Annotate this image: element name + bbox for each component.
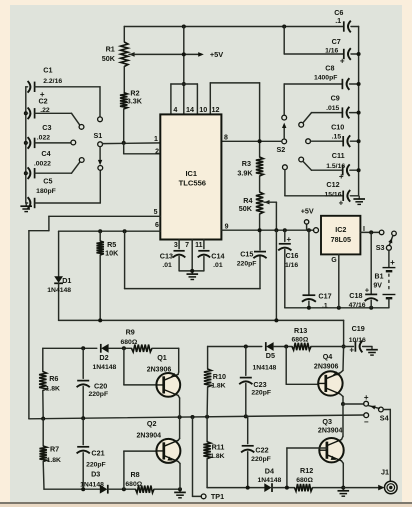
svg-text:R13: R13 bbox=[294, 326, 307, 335]
svg-text:Q4: Q4 bbox=[323, 352, 333, 361]
svg-text:50K: 50K bbox=[102, 54, 116, 63]
svg-text:6: 6 bbox=[155, 222, 159, 229]
svg-text:10: 10 bbox=[199, 105, 207, 114]
svg-text:IC1: IC1 bbox=[185, 169, 197, 178]
svg-text:D2: D2 bbox=[99, 353, 108, 362]
svg-text:.0022: .0022 bbox=[34, 161, 51, 168]
svg-text:680Ω: 680Ω bbox=[296, 477, 313, 484]
svg-text:680Ω: 680Ω bbox=[292, 337, 309, 344]
svg-text:+: + bbox=[364, 393, 369, 402]
svg-text:C12: C12 bbox=[326, 180, 339, 189]
svg-text:220pF: 220pF bbox=[86, 461, 106, 468]
svg-text:R9: R9 bbox=[126, 328, 135, 337]
svg-text:S4: S4 bbox=[380, 414, 389, 423]
svg-text:D4: D4 bbox=[265, 466, 274, 475]
svg-text:12: 12 bbox=[212, 105, 220, 114]
svg-text:R10: R10 bbox=[213, 372, 226, 381]
svg-text:10/16: 10/16 bbox=[349, 337, 366, 344]
svg-text:8: 8 bbox=[224, 135, 228, 142]
svg-text:.22: .22 bbox=[40, 107, 50, 114]
svg-text:2N3906: 2N3906 bbox=[147, 367, 172, 374]
svg-text:+: + bbox=[340, 57, 345, 66]
svg-text:S1: S1 bbox=[94, 131, 103, 140]
svg-text:180pF: 180pF bbox=[36, 188, 56, 195]
svg-text:C11: C11 bbox=[332, 151, 345, 160]
svg-text:2.2/16: 2.2/16 bbox=[43, 78, 62, 85]
svg-text:S3: S3 bbox=[376, 243, 385, 252]
svg-text:+: + bbox=[390, 258, 395, 267]
svg-text:7: 7 bbox=[185, 242, 189, 249]
svg-text:14: 14 bbox=[186, 105, 194, 114]
svg-text:C17: C17 bbox=[318, 291, 331, 300]
svg-text:C22: C22 bbox=[255, 445, 268, 454]
svg-text:+: + bbox=[286, 235, 291, 244]
svg-text:220pF: 220pF bbox=[237, 261, 257, 268]
svg-text:.015: .015 bbox=[326, 105, 339, 112]
svg-text:220pF: 220pF bbox=[251, 456, 271, 463]
svg-text:C9: C9 bbox=[331, 93, 340, 102]
svg-text:C21: C21 bbox=[91, 448, 104, 457]
svg-text:50K: 50K bbox=[239, 204, 253, 213]
svg-text:220pF: 220pF bbox=[251, 390, 271, 397]
svg-text:5: 5 bbox=[154, 209, 158, 216]
svg-text:C18: C18 bbox=[349, 291, 362, 300]
svg-text:.1: .1 bbox=[322, 303, 328, 310]
svg-text:Q3: Q3 bbox=[322, 417, 332, 426]
svg-text:J1: J1 bbox=[381, 467, 389, 476]
svg-text:.022: .022 bbox=[37, 134, 50, 141]
svg-text:1N4148: 1N4148 bbox=[80, 482, 104, 489]
svg-text:.01: .01 bbox=[162, 262, 172, 269]
svg-text:+: + bbox=[349, 346, 354, 355]
svg-text:1400pF: 1400pF bbox=[314, 74, 337, 81]
svg-text:+5V: +5V bbox=[210, 50, 223, 59]
svg-text:2N3906: 2N3906 bbox=[314, 363, 339, 370]
svg-text:3.3K: 3.3K bbox=[127, 96, 143, 105]
svg-text:.01: .01 bbox=[213, 262, 223, 269]
svg-text:9V: 9V bbox=[373, 282, 382, 289]
svg-text:D1: D1 bbox=[62, 276, 71, 285]
svg-text:C5: C5 bbox=[43, 176, 52, 185]
svg-text:3.9K: 3.9K bbox=[237, 169, 253, 178]
svg-text:11: 11 bbox=[195, 242, 203, 249]
svg-text:D3: D3 bbox=[91, 470, 100, 479]
svg-text:+: + bbox=[339, 172, 344, 181]
svg-text:C3: C3 bbox=[42, 123, 51, 132]
svg-text:10K: 10K bbox=[105, 248, 119, 257]
svg-text:1.5/16: 1.5/16 bbox=[326, 163, 345, 170]
svg-text:R8: R8 bbox=[130, 470, 139, 479]
svg-text:S2: S2 bbox=[277, 145, 286, 154]
svg-text:1: 1 bbox=[154, 136, 158, 143]
svg-text:C23: C23 bbox=[253, 380, 266, 389]
svg-text:R7: R7 bbox=[50, 445, 59, 454]
svg-text:78L05: 78L05 bbox=[331, 235, 351, 244]
svg-text:C2: C2 bbox=[38, 96, 47, 105]
svg-text:1N4148: 1N4148 bbox=[47, 287, 71, 294]
svg-text:2N3904: 2N3904 bbox=[318, 428, 343, 435]
svg-text:680Ω: 680Ω bbox=[121, 339, 138, 346]
svg-text:2N3904: 2N3904 bbox=[137, 433, 162, 440]
svg-text:R6: R6 bbox=[49, 374, 58, 383]
svg-text:1.8K: 1.8K bbox=[47, 457, 61, 464]
svg-text:C14: C14 bbox=[211, 251, 224, 260]
svg-text:1/16: 1/16 bbox=[325, 47, 338, 54]
svg-text:+5V: +5V bbox=[301, 206, 314, 215]
svg-text:R1: R1 bbox=[106, 44, 115, 53]
svg-text:1.8K: 1.8K bbox=[211, 383, 225, 390]
svg-text:TP1: TP1 bbox=[211, 492, 224, 501]
svg-text:R11: R11 bbox=[212, 443, 225, 452]
svg-text:C13: C13 bbox=[160, 251, 173, 260]
svg-text:1.8K: 1.8K bbox=[46, 386, 60, 393]
svg-text:4: 4 bbox=[173, 105, 177, 114]
svg-text:1N4148: 1N4148 bbox=[252, 365, 276, 372]
svg-text:1/16: 1/16 bbox=[285, 262, 298, 269]
svg-text:220pF: 220pF bbox=[88, 391, 108, 398]
svg-text:.15: .15 bbox=[332, 134, 342, 141]
svg-text:C7: C7 bbox=[332, 37, 341, 46]
svg-text:C16: C16 bbox=[286, 253, 299, 260]
svg-text:1.8K: 1.8K bbox=[210, 453, 224, 460]
svg-text:IC2: IC2 bbox=[335, 225, 346, 234]
svg-text:C20: C20 bbox=[94, 381, 107, 390]
svg-text:Q1: Q1 bbox=[157, 353, 167, 362]
svg-text:3: 3 bbox=[174, 242, 178, 249]
svg-text:−: − bbox=[364, 417, 369, 426]
svg-text:D5: D5 bbox=[266, 351, 275, 360]
svg-text:47/16: 47/16 bbox=[349, 302, 366, 309]
svg-text:+: + bbox=[339, 198, 344, 207]
svg-text:680Ω: 680Ω bbox=[125, 481, 142, 488]
svg-text:C10: C10 bbox=[331, 123, 344, 132]
svg-text:.1: .1 bbox=[335, 16, 341, 25]
svg-text:C8: C8 bbox=[325, 64, 334, 73]
svg-text:C19: C19 bbox=[352, 324, 365, 333]
svg-text:1N4148: 1N4148 bbox=[257, 477, 281, 484]
svg-text:Q2: Q2 bbox=[147, 419, 157, 428]
svg-text:R3: R3 bbox=[242, 159, 251, 168]
svg-text:C4: C4 bbox=[41, 149, 50, 158]
svg-text:2: 2 bbox=[155, 149, 159, 156]
svg-text:R12: R12 bbox=[300, 466, 313, 475]
svg-text:B1: B1 bbox=[375, 273, 384, 280]
svg-text:TLC556: TLC556 bbox=[179, 179, 206, 188]
svg-text:1N4148: 1N4148 bbox=[92, 364, 116, 371]
svg-text:+: + bbox=[365, 286, 370, 295]
svg-text:C15: C15 bbox=[240, 249, 253, 258]
svg-text:C1: C1 bbox=[43, 65, 52, 74]
svg-text:G: G bbox=[331, 257, 337, 264]
